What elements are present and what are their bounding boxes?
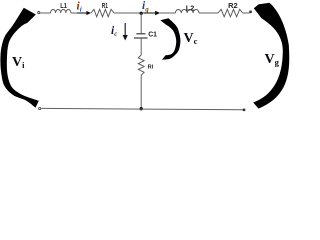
wire: L2 to R2 (199, 12, 218, 14)
wire: node A to L1 (40, 12, 50, 14)
inductor L1 (51, 9, 71, 13)
resistor R2 (218, 9, 243, 16)
current arrow ig on wire (143, 11, 160, 16)
node (open dot, bottom-left) (39, 107, 41, 109)
resistor Rl (vertical) (138, 55, 144, 79)
node (small square, bottom-right) (243, 109, 246, 112)
wire: ig arrow to L2 (160, 12, 175, 14)
junction node (top middle) (140, 12, 143, 15)
wire: L1 to R1 (71, 12, 87, 14)
capacitor C1 (134, 34, 148, 38)
wire: R1 to junction (114, 12, 141, 14)
current arrow ic (downward) (123, 23, 128, 41)
svg-text:R1: R1 (102, 3, 108, 10)
junction node (bottom middle) (140, 107, 143, 110)
svg-text:L1: L1 (60, 3, 67, 10)
inductor L2 (175, 9, 199, 13)
current arrow i1 on wire (77, 11, 91, 15)
svg-text:L2: L2 (186, 6, 195, 13)
svg-text:C1: C1 (148, 31, 157, 38)
svg-text:R2: R2 (228, 3, 238, 10)
node A (open dot, top-left) (38, 12, 40, 14)
svg-text:Rl: Rl (148, 65, 154, 71)
wire: R2 to right node (243, 12, 250, 14)
wire: Rl to bottom junction (140, 79, 142, 109)
wire: bottom rail (41, 108, 244, 109)
wire: junction down to C1 (140, 13, 142, 34)
voltage arrow Vi (left big curved arrow) (0, 8, 38, 108)
resistor R1 (91, 9, 114, 16)
voltage arrow Vc (middle curved arrow) (160, 18, 180, 60)
wire: C1 to Rl (140, 38, 142, 55)
voltage arrow Vg (right big curved arrow) (253, 3, 289, 109)
node (small square, top-right) (249, 11, 252, 14)
